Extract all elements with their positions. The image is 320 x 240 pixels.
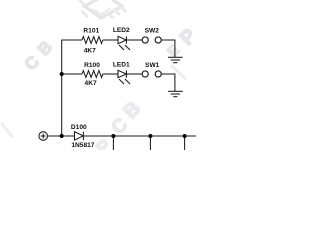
wire stub down 2: [149, 136, 151, 150]
wire LED2 to SW2: [126, 39, 142, 41]
wire R100 to LED1: [103, 73, 118, 75]
svg-text:LED2: LED2: [113, 27, 130, 34]
wire SW1 to ground corner: [162, 74, 175, 91]
svg-text:SW2: SW2: [145, 28, 160, 35]
wire stub down 3: [184, 136, 186, 150]
svg-text:D100: D100: [71, 124, 87, 131]
svg-text:4K7: 4K7: [85, 80, 97, 87]
wire row2 from left rail: [62, 73, 82, 75]
terminal +: [39, 132, 48, 141]
junction node bottom 3: [183, 134, 187, 138]
svg-text:R100: R100: [84, 62, 100, 69]
wire R101 to LED2: [103, 39, 118, 41]
junction node row2 left: [60, 72, 64, 76]
ground (top): [168, 57, 183, 62]
wire LED1 to SW1: [126, 73, 142, 75]
svg-text:4K7: 4K7: [84, 48, 96, 55]
junction node bottom 2: [148, 134, 152, 138]
resistor R101: [82, 37, 103, 44]
switch SW1: [142, 71, 161, 77]
ground (bottom): [168, 91, 183, 96]
wire SW2 to ground corner: [162, 40, 175, 57]
svg-text:R101: R101: [83, 28, 99, 35]
junction node bottom 1: [111, 134, 115, 138]
wire stub down 1: [112, 136, 114, 150]
svg-text:1N5817: 1N5817: [71, 142, 94, 149]
svg-text:SW1: SW1: [145, 62, 160, 69]
resistor R100: [82, 71, 103, 78]
LED2: [118, 36, 130, 50]
diode D100: [75, 132, 84, 140]
wire D100 to right edge: [83, 135, 196, 137]
switch SW2: [142, 37, 161, 43]
watermark: [2, 0, 201, 159]
svg-text:LED1: LED1: [113, 61, 130, 68]
wire top-left corner horizontal: [62, 40, 82, 136]
junction node bottom left: [60, 134, 64, 138]
wire terminal to D100: [48, 135, 75, 137]
LED1: [118, 70, 130, 84]
